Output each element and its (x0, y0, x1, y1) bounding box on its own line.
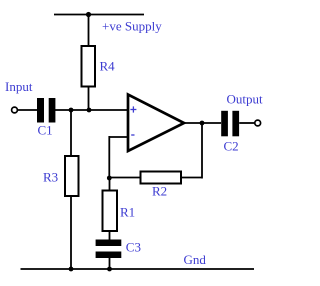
svg-text:C3: C3 (126, 240, 141, 255)
svg-text:Gnd: Gnd (184, 252, 207, 267)
svg-text:Input: Input (5, 79, 33, 94)
svg-text:R3: R3 (43, 170, 58, 185)
svg-text:+ve Supply: +ve Supply (102, 19, 162, 34)
svg-text:R2: R2 (152, 184, 167, 199)
svg-text:R1: R1 (120, 205, 135, 220)
svg-text:C2: C2 (224, 139, 239, 154)
svg-text:C1: C1 (38, 123, 53, 138)
svg-text:R4: R4 (100, 59, 116, 74)
svg-text:Output: Output (227, 91, 264, 106)
